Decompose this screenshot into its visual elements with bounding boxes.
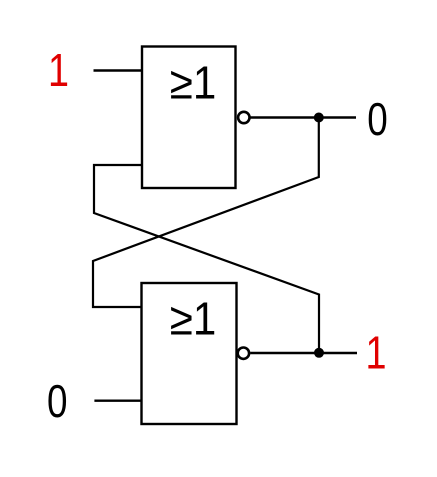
svg-text:1: 1 <box>48 44 69 96</box>
wire S input <box>94 69 143 71</box>
svg-text:≥1: ≥1 <box>170 56 217 108</box>
inverter bubble U1 <box>238 112 249 123</box>
svg-text:1: 1 <box>366 327 387 379</box>
wire U2 output <box>250 352 357 354</box>
node Qbar junction <box>314 348 324 358</box>
inverter bubble U2 <box>238 348 249 359</box>
svg-text:0: 0 <box>367 93 388 145</box>
NOR gate U1 (top) <box>142 47 236 189</box>
NOR gate U2 (bottom) <box>142 283 237 424</box>
wire R input <box>94 400 142 402</box>
svg-text:0: 0 <box>47 375 68 427</box>
wire Q feedback to U2 input <box>93 118 319 308</box>
wire U1 input2 feedback from node Qbar <box>94 165 319 353</box>
node Q junction <box>314 113 324 123</box>
svg-text:≥1: ≥1 <box>170 292 217 344</box>
wire U1 output <box>251 116 357 118</box>
